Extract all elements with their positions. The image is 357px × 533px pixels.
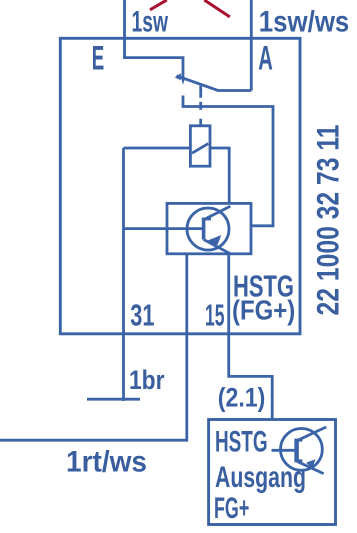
actuator dashed link [199,86,202,126]
transistor Q1 circle [187,208,229,250]
switch S1 arm arrow [175,73,182,80]
transistor Q2 emitter arrow [306,459,316,468]
transistor Q2 circle [281,429,323,471]
relay coil K1 [190,126,210,166]
svg-text:FG+: FG+ [214,492,249,525]
transistor Q1 emitter [204,240,231,254]
svg-text:A: A [258,39,273,77]
transistor Q2 base bar [294,439,299,463]
transistor Q1 collector [205,206,231,219]
svg-text:1br: 1br [129,365,165,395]
svg-text:(FG+): (FG+) [232,295,295,326]
svg-text:Ausgang: Ausgang [215,461,306,494]
svg-text:1sw: 1sw [132,5,169,38]
ground bar 31 [87,398,140,401]
relay coil K1 diagonal [192,144,208,154]
transistor block U1 box [167,203,251,253]
wire terminal 15 and 1rt/ws line [0,254,187,440]
wire coil left [124,147,191,150]
transistor Q2 base wire [272,449,295,452]
wire coil right to transistor top [210,148,229,203]
svg-text:HSTG: HSTG [215,426,268,459]
svg-text:1sw/ws: 1sw/ws [259,6,350,39]
transistor Q1 base stub [204,218,211,221]
svg-text:E: E [92,39,105,77]
transistor Q1 base bar [202,218,206,240]
transistor Q2 base stubs [297,440,303,461]
wire terminal 31 [122,148,125,401]
control unit box [60,38,300,334]
transistor Q2 emitter [297,461,324,473]
svg-text:(2.1): (2.1) [218,383,265,413]
red cross leg right [204,0,230,17]
wire E input vertical 1sw [125,0,184,80]
svg-text:15: 15 [205,297,225,332]
switch S1 arm [177,76,252,91]
switch S1 contact tip [182,80,185,85]
wire transistor base [124,227,203,230]
svg-text:1rt/ws: 1rt/ws [66,446,147,479]
wire pivot to collector net [183,96,273,226]
transistor Q2 collector [297,427,326,441]
wire terminal HSTG to output box [229,254,273,420]
red cross leg left [150,0,167,10]
HSTG Ausgang box [209,420,336,525]
svg-text:31: 31 [130,297,154,332]
transistor Q1 emitter arrow [206,235,222,245]
wire A output vertical 1sw/ws [250,0,253,91]
svg-text:22 1000 32 73 11: 22 1000 32 73 11 [310,125,346,316]
